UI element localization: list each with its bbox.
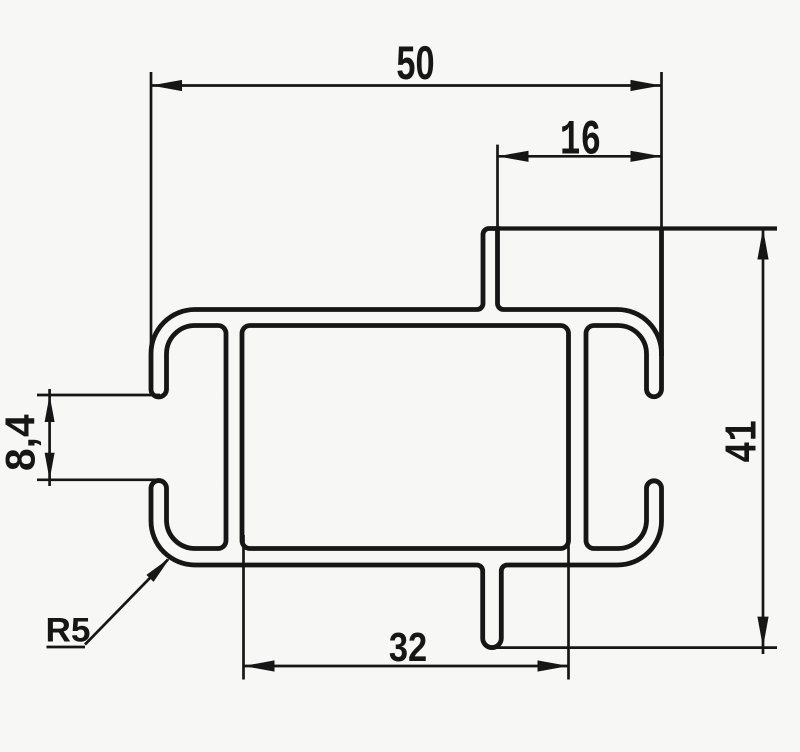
arrowhead dim 32 left bbox=[244, 660, 275, 671]
extension line dim 41 top (top tab top edge prolonged) bbox=[498, 226, 778, 230]
arrowhead dim 16 right bbox=[631, 151, 662, 162]
arrowhead dim 41 bottom bbox=[757, 617, 768, 648]
dimension line 41 bbox=[762, 229, 765, 655]
arrowhead dim 50 left bbox=[151, 80, 182, 91]
svg-text:16: 16 bbox=[560, 113, 601, 169]
arrowhead dim 8,4 top bbox=[45, 395, 55, 422]
profile hollow chamber bbox=[242, 326, 569, 549]
extension line dim 50 left (merges with profile left edge) bbox=[150, 72, 153, 356]
arrowhead R5 leader bbox=[146, 558, 170, 582]
svg-text:50: 50 bbox=[396, 37, 434, 90]
aluminium profile outline bbox=[151, 229, 662, 648]
extension line dim 32 left bbox=[242, 535, 245, 680]
extension line dim 32 right bbox=[567, 528, 570, 680]
extension line dim 16 left (top tab right face) bbox=[496, 145, 499, 229]
arrowhead dim 41 top bbox=[757, 229, 768, 260]
dimension line 32 bbox=[244, 665, 569, 668]
svg-text:32: 32 bbox=[389, 625, 427, 670]
extension line dim 8,4 top bbox=[37, 394, 160, 397]
svg-text:8,4: 8,4 bbox=[0, 414, 44, 471]
profile right outer face upper segment (to tab top line) bbox=[659, 229, 664, 357]
dimension line 8,4 bbox=[48, 389, 51, 486]
dimension line 50 bbox=[151, 84, 662, 87]
extension line dim 50 right / profile right edge above tab bbox=[660, 72, 663, 229]
arrowhead dim 32 right bbox=[538, 660, 569, 671]
dimension line 16 bbox=[498, 155, 662, 158]
leader underline R5 bbox=[47, 646, 86, 649]
arrowhead dim 8,4 bottom bbox=[45, 453, 55, 480]
leader line R5 bbox=[85, 560, 168, 645]
extension line dim 8,4 bottom bbox=[37, 478, 160, 481]
extension line dim 41 bottom (bottom tab lowest point) bbox=[492, 646, 777, 649]
svg-text:R5: R5 bbox=[46, 611, 91, 650]
svg-text:41: 41 bbox=[719, 420, 770, 463]
arrowhead dim 50 right bbox=[631, 80, 662, 91]
arrowhead dim 16 left bbox=[498, 151, 529, 162]
